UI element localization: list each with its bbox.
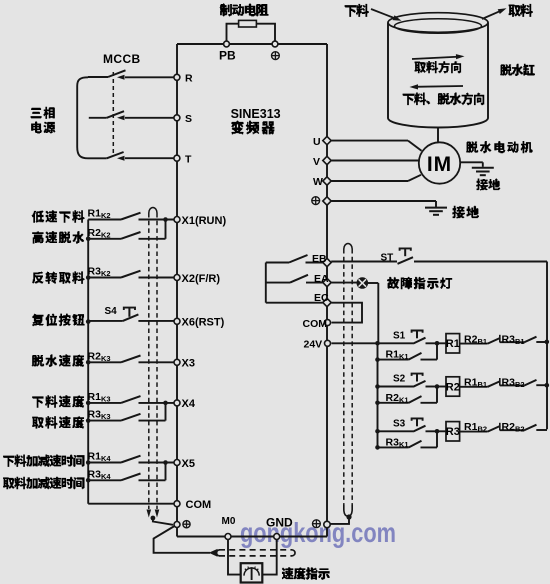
svg-text:EB: EB — [312, 253, 327, 265]
svg-text:X3: X3 — [182, 358, 195, 370]
svg-text:X6(RST): X6(RST) — [182, 317, 225, 329]
svg-text:24V: 24V — [304, 339, 323, 351]
svg-text:M0: M0 — [222, 516, 236, 527]
svg-text:W: W — [313, 176, 323, 188]
svg-text:PB: PB — [219, 49, 236, 63]
svg-text:R1: R1 — [446, 338, 460, 350]
svg-text:EA: EA — [314, 273, 329, 285]
svg-text:MCCB: MCCB — [103, 52, 141, 66]
svg-text:S2: S2 — [393, 374, 406, 385]
svg-text:X2(F/R): X2(F/R) — [182, 273, 221, 285]
svg-text:R3: R3 — [446, 426, 460, 438]
svg-text:S: S — [185, 113, 192, 125]
svg-text:X1(RUN): X1(RUN) — [182, 215, 227, 227]
svg-text:V: V — [313, 156, 320, 168]
svg-text:R2: R2 — [446, 381, 460, 393]
svg-text:X5: X5 — [182, 458, 195, 470]
svg-text:gongkong.com: gongkong.com — [240, 517, 396, 548]
svg-text:T: T — [185, 154, 192, 166]
svg-text:GND: GND — [266, 516, 293, 530]
svg-text:X4: X4 — [182, 398, 196, 410]
svg-text:EC: EC — [314, 292, 329, 304]
svg-text:S4: S4 — [105, 306, 118, 317]
svg-text:S3: S3 — [393, 418, 406, 429]
svg-text:S1: S1 — [393, 331, 406, 342]
svg-text:IM: IM — [427, 153, 452, 176]
svg-text:SINE313: SINE313 — [231, 107, 281, 121]
svg-text:U: U — [313, 136, 321, 148]
svg-text:ST: ST — [381, 253, 394, 264]
svg-text:COM: COM — [303, 318, 328, 330]
svg-text:COM: COM — [186, 499, 212, 511]
svg-text:R: R — [185, 73, 193, 85]
